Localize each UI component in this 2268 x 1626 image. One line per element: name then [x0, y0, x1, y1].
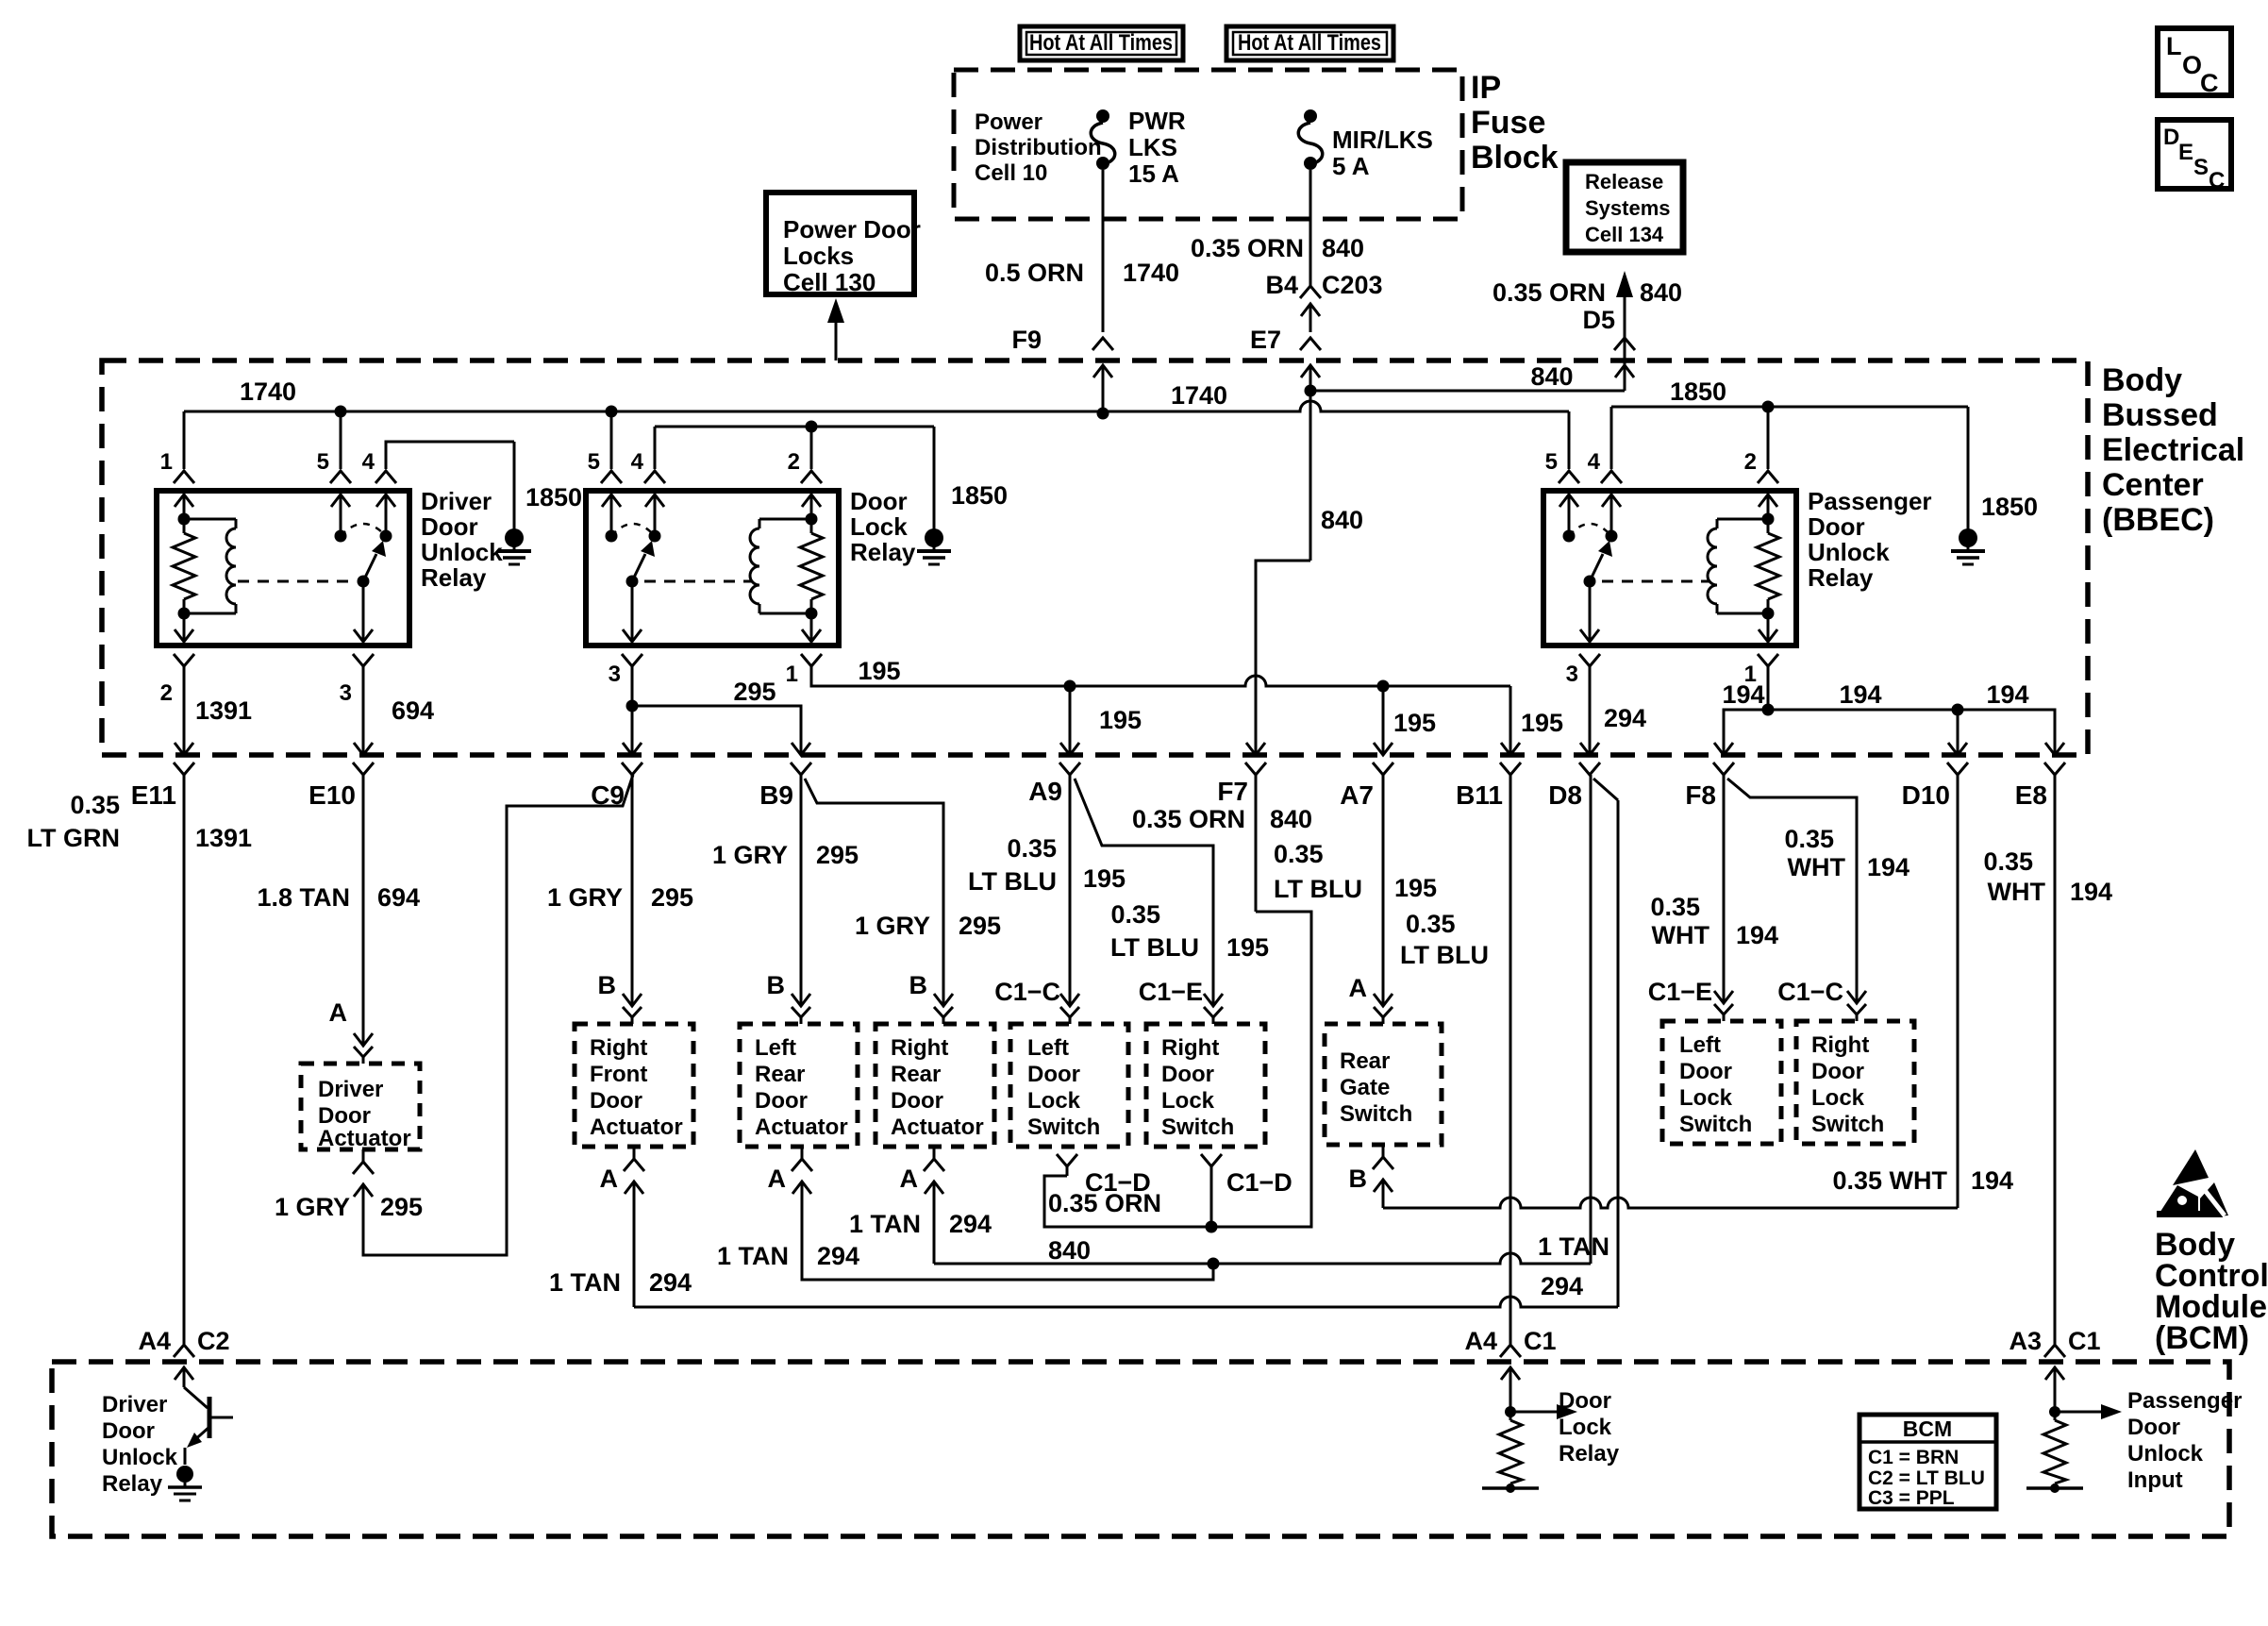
wire mid pin3 down with branch — [631, 666, 634, 755]
svg-text:A: A — [900, 1165, 919, 1193]
pass relay resistor — [1767, 519, 1770, 533]
svg-text:Distribution: Distribution — [975, 135, 1102, 160]
pass relay pin5 arrow inside — [1559, 495, 1578, 507]
connector pass RDLS C1-C top — [1847, 991, 1866, 1003]
wire 840 jog to F7 — [1256, 561, 1310, 755]
BCM passenger door unlock input symbol — [2054, 1367, 2057, 1420]
connector pass pin2 — [1758, 471, 1778, 483]
driver relay pin2 wire inside — [183, 613, 186, 642]
fuse PWR LKS 15A — [1096, 109, 1109, 123]
svg-text:Body: Body — [2102, 362, 2182, 398]
pass 1850 line — [1611, 406, 1968, 409]
svg-text:Switch: Switch — [1161, 1115, 1234, 1140]
connector B4-C203 inline — [1300, 286, 1321, 298]
svg-text:C1−E: C1−E — [1648, 978, 1712, 1006]
mid 1850 line — [655, 426, 934, 428]
svg-text:194: 194 — [1839, 680, 1881, 709]
IP Fuse Block dashed box — [954, 70, 1462, 219]
svg-text:194: 194 — [1736, 921, 1778, 949]
svg-text:Systems: Systems — [1585, 196, 1671, 220]
svg-text:Left: Left — [1679, 1032, 1721, 1058]
svg-text:1740: 1740 — [240, 377, 296, 406]
svg-text:Right: Right — [1161, 1035, 1219, 1061]
svg-text:A9: A9 — [1028, 777, 1062, 806]
svg-text:195: 195 — [1226, 933, 1269, 962]
driver relay contact arc — [341, 524, 386, 536]
svg-text:Unlock: Unlock — [421, 538, 503, 566]
svg-text:294: 294 — [949, 1210, 992, 1238]
driver relay pin1 arrow inside — [175, 495, 193, 507]
pass relay contact arc — [1569, 524, 1611, 536]
ESD symbol — [2173, 1149, 2209, 1185]
svg-text:194: 194 — [1971, 1166, 2013, 1195]
connector pass pin1 below box — [1758, 654, 1778, 666]
DESC reference box (top right) — [2158, 120, 2231, 189]
mid relay pin5 arrow inside — [602, 495, 621, 507]
pass relay coil — [1762, 513, 1775, 526]
mid relay pin2 arrow inside — [802, 495, 821, 507]
svg-text:Door: Door — [1808, 512, 1865, 541]
svg-text:(BBEC): (BBEC) — [2102, 502, 2214, 538]
svg-text:Door: Door — [755, 1088, 808, 1114]
svg-text:F8: F8 — [1685, 780, 1716, 810]
svg-text:LT BLU: LT BLU — [968, 867, 1057, 896]
svg-text:Door: Door — [318, 1103, 371, 1129]
driver relay resistor — [178, 513, 191, 526]
svg-text:C1: C1 — [1524, 1327, 1557, 1355]
svg-text:294: 294 — [817, 1242, 859, 1270]
driver relay mech link dashed — [238, 580, 349, 583]
svg-text:1.8 TAN: 1.8 TAN — [257, 883, 350, 912]
svg-text:694: 694 — [377, 883, 420, 912]
wire D8 diagonal — [1593, 779, 1618, 800]
svg-text:Right: Right — [891, 1035, 948, 1061]
svg-text:E10: E10 — [309, 780, 356, 810]
junction 195 at A9 — [1064, 680, 1076, 693]
svg-text:1740: 1740 — [1171, 381, 1227, 410]
Passenger Door Unlock Relay box — [1543, 491, 1796, 645]
pass relay contact dots — [1563, 530, 1576, 543]
wire bus to driver pin1 — [183, 411, 186, 469]
svg-text:1: 1 — [786, 662, 798, 687]
svg-text:L: L — [2166, 32, 2182, 60]
connector F8 at BBEC bottom edge — [1714, 743, 1733, 755]
wire 840 E7 to D5 riser — [1310, 390, 1625, 393]
svg-text:Cell 10: Cell 10 — [975, 160, 1047, 186]
wire rear gate B to D10 (194) — [1382, 1180, 1385, 1208]
svg-text:C203: C203 — [1322, 271, 1383, 299]
svg-text:C2: C2 — [197, 1327, 230, 1355]
svg-text:Fuse: Fuse — [1471, 105, 1545, 141]
svg-text:C1−E: C1−E — [1139, 978, 1203, 1006]
svg-text:Door: Door — [1027, 1062, 1080, 1087]
svg-text:0.35: 0.35 — [1110, 900, 1160, 929]
mid relay pin4 arrow inside — [645, 495, 664, 507]
svg-text:Gate: Gate — [1340, 1075, 1390, 1100]
svg-text:Rear: Rear — [1340, 1048, 1390, 1074]
connector pass pin3 below box — [1579, 654, 1600, 666]
BCM driver door unlock relay transistor — [183, 1367, 186, 1387]
wire driver pin3 to BBEC edge — [362, 666, 365, 755]
svg-text:Lock: Lock — [1811, 1085, 1865, 1111]
svg-text:Power Door: Power Door — [783, 215, 921, 243]
svg-text:295: 295 — [380, 1193, 423, 1221]
wire driver pin2 to BBEC edge — [183, 666, 186, 755]
connector driver pin1 — [174, 471, 194, 483]
bus 194 — [1724, 710, 2055, 755]
pass relay pin2 arrow inside — [1759, 495, 1777, 507]
mid relay pin3 wire inside — [631, 581, 634, 642]
mid relay contact arc — [611, 524, 655, 536]
svg-text:3: 3 — [340, 680, 352, 706]
svg-text:C1 = BRN: C1 = BRN — [1868, 1447, 1959, 1468]
svg-text:295: 295 — [816, 841, 859, 869]
connector A4-C1 BCM top — [1500, 1345, 1521, 1357]
svg-text:1740: 1740 — [1123, 259, 1179, 287]
svg-text:Switch: Switch — [1027, 1115, 1100, 1140]
svg-text:0.35: 0.35 — [1784, 825, 1834, 853]
svg-text:840: 840 — [1640, 278, 1682, 307]
wire mid pin2 riser — [810, 427, 813, 469]
svg-text:1391: 1391 — [195, 824, 252, 852]
connector RR actuator A bottom — [924, 1159, 944, 1171]
connector RF actuator A bottom — [624, 1159, 644, 1171]
svg-text:Relay: Relay — [1559, 1441, 1620, 1467]
svg-text:0.35: 0.35 — [1007, 834, 1057, 863]
wire pass pin2 riser — [1767, 407, 1770, 469]
wire 1740 end to pass pin5 — [1568, 411, 1571, 469]
wire RF actuator A to D8 (294) — [634, 1297, 1618, 1307]
svg-text:5: 5 — [1545, 449, 1558, 475]
svg-text:LT BLU: LT BLU — [1400, 941, 1489, 969]
svg-text:3: 3 — [609, 662, 621, 687]
wire driver actuator 295 loop — [363, 775, 633, 1255]
svg-text:1850: 1850 — [1670, 377, 1726, 406]
svg-text:840: 840 — [1530, 362, 1573, 391]
ground 1850 driver — [513, 442, 516, 529]
connector F7 at BBEC bottom edge — [1246, 743, 1265, 755]
svg-text:Rear: Rear — [755, 1062, 805, 1087]
mid relay pin1 wire inside — [810, 613, 813, 642]
svg-text:B: B — [767, 971, 786, 999]
svg-text:0.35: 0.35 — [1406, 910, 1456, 938]
ground 1850 pass — [1967, 407, 1970, 529]
mid relay contact dots — [606, 530, 618, 543]
connector rear gate A top — [1374, 994, 1392, 1006]
svg-text:4: 4 — [1588, 449, 1601, 475]
svg-text:Unlock: Unlock — [102, 1445, 178, 1470]
svg-text:B: B — [909, 971, 928, 999]
svg-text:Lock: Lock — [1679, 1085, 1733, 1111]
connector mid pin1 below box — [801, 654, 822, 666]
svg-text:Door: Door — [2127, 1415, 2180, 1440]
junction 1740 driver pin5 — [335, 406, 347, 418]
svg-text:294: 294 — [1541, 1272, 1583, 1300]
svg-text:0.35: 0.35 — [1650, 893, 1700, 921]
pass relay mech link dashed — [1602, 580, 1710, 583]
wire E11 to BCM A4-C2 — [183, 775, 186, 1344]
svg-text:1 TAN: 1 TAN — [549, 1268, 621, 1297]
svg-text:2: 2 — [788, 449, 800, 475]
wire mid pin4 riser — [654, 427, 657, 469]
connector pass pin4 — [1601, 471, 1622, 483]
svg-text:Left: Left — [755, 1035, 796, 1061]
svg-text:1: 1 — [160, 449, 173, 475]
svg-text:195: 195 — [1394, 874, 1437, 902]
bus 1740 across BBEC — [184, 401, 1569, 411]
wire F7 840 to C1-D junction — [1211, 912, 1311, 1227]
wire F8 to left passenger switch — [1723, 775, 1726, 991]
wire F9 into BBEC to 1740 bus — [1102, 365, 1105, 413]
svg-text:Driver: Driver — [421, 487, 492, 515]
svg-text:Unlock: Unlock — [1808, 538, 1890, 566]
svg-text:E: E — [2178, 140, 2193, 165]
svg-text:1 GRY: 1 GRY — [855, 912, 930, 940]
svg-text:Rear: Rear — [891, 1062, 941, 1087]
svg-text:Power: Power — [975, 109, 1042, 135]
svg-text:C1: C1 — [2068, 1327, 2101, 1355]
junction C1-D 840 — [1206, 1221, 1218, 1233]
svg-text:2: 2 — [1744, 449, 1757, 475]
svg-text:840: 840 — [1048, 1236, 1091, 1265]
Left Door Lock Switch box — [1010, 1024, 1128, 1147]
svg-text:C3 = PPL: C3 = PPL — [1868, 1487, 1955, 1509]
svg-text:694: 694 — [392, 696, 434, 725]
wire pass pin3 to D8 — [1589, 666, 1592, 755]
svg-text:A: A — [600, 1165, 619, 1193]
wire pass pin1 to 194 bus — [1767, 666, 1770, 710]
connector LDLS C1-D bottom — [1057, 1154, 1077, 1166]
connector E7 at BBEC top — [1300, 338, 1321, 350]
svg-text:Lock: Lock — [1027, 1088, 1081, 1114]
wire bus to driver pin5 — [340, 411, 342, 469]
svg-text:WHT: WHT — [1652, 921, 1710, 949]
LOC reference box (top right) — [2158, 28, 2231, 95]
svg-text:Electrical: Electrical — [2102, 432, 2244, 468]
connector B9 at BBEC bottom edge — [792, 743, 810, 755]
svg-text:Lock: Lock — [1161, 1088, 1215, 1114]
wire 840 to left C1-D hook — [1044, 1176, 1211, 1227]
wire E7 junction into BBEC — [1309, 365, 1312, 391]
svg-text:194: 194 — [1986, 680, 2028, 709]
BCM dashed box — [52, 1362, 2229, 1536]
wire E8 to BCM A3-C1 — [2054, 775, 2057, 1344]
svg-text:5: 5 — [317, 449, 329, 475]
wire A7 to rear gate switch — [1382, 775, 1385, 991]
svg-text:Relay: Relay — [102, 1471, 163, 1497]
svg-text:Door: Door — [102, 1418, 155, 1444]
Power Door Locks Cell 130 box — [766, 193, 914, 294]
driver relay coil — [184, 518, 236, 521]
connector LR actuator A bottom — [792, 1159, 812, 1171]
svg-text:840: 840 — [1322, 234, 1364, 262]
connector E11 at BBEC bottom edge — [175, 743, 193, 755]
svg-text:A: A — [1349, 974, 1368, 1002]
svg-text:Driver: Driver — [102, 1392, 167, 1417]
svg-text:S: S — [2193, 155, 2209, 180]
svg-text:A7: A7 — [1340, 780, 1374, 810]
connector A3-C1 BCM top — [2044, 1345, 2065, 1357]
svg-text:B: B — [598, 971, 617, 999]
pass Right Door Lock Switch box — [1796, 1021, 1914, 1144]
svg-text:C1−D: C1−D — [1226, 1168, 1292, 1197]
mid relay resistor — [810, 519, 813, 533]
wire C9 to right front actuator — [631, 775, 634, 991]
connector rear gate B bottom — [1373, 1157, 1393, 1169]
svg-text:5 A: 5 A — [1332, 152, 1370, 180]
BCM door lock relay symbol — [1509, 1367, 1512, 1420]
wire E10 to driver door actuator — [362, 775, 365, 991]
Right Door Lock Switch box — [1146, 1024, 1265, 1147]
Right Rear Door Actuator box — [876, 1024, 994, 1147]
connector pass pin5 — [1559, 471, 1579, 483]
connector mid pin4 — [644, 471, 665, 483]
svg-text:Actuator: Actuator — [891, 1115, 984, 1140]
svg-text:BCM: BCM — [1903, 1416, 1952, 1441]
svg-text:Right: Right — [590, 1035, 647, 1061]
wire bus to mid pin5 — [610, 411, 613, 469]
connector driver pin4 — [375, 471, 396, 483]
svg-text:A: A — [329, 998, 348, 1027]
Hot At All Times label box (right) — [1226, 26, 1393, 60]
svg-text:294: 294 — [649, 1268, 692, 1297]
svg-text:Right: Right — [1811, 1032, 1869, 1058]
mid relay coil — [806, 513, 818, 526]
svg-text:4: 4 — [362, 449, 375, 475]
svg-text:1 GRY: 1 GRY — [547, 883, 623, 912]
pass relay pin1 wire inside — [1767, 613, 1770, 642]
svg-text:Switch: Switch — [1811, 1112, 1884, 1137]
connector mid pin2 — [801, 471, 822, 483]
connector A9 at BBEC bottom edge — [1060, 743, 1079, 755]
connector mid pin5 — [601, 471, 622, 483]
svg-text:195: 195 — [1521, 709, 1563, 737]
wire B9 branch to right rear — [805, 779, 943, 991]
wire A9 to left door lock switch — [1069, 775, 1072, 991]
connector RDLS C1-E top — [1204, 994, 1223, 1006]
wire 195 drop to A7 — [1382, 686, 1385, 755]
Hot At All Times label box (left) — [1020, 26, 1183, 60]
svg-text:Front: Front — [590, 1062, 647, 1087]
wire C203 to E7 — [1309, 304, 1312, 332]
svg-text:B: B — [1349, 1165, 1368, 1193]
svg-text:LT BLU: LT BLU — [1110, 933, 1199, 962]
connector LDLS C1-C top — [1060, 994, 1079, 1006]
svg-text:C: C — [2209, 168, 2225, 193]
svg-text:194: 194 — [2070, 878, 2112, 906]
driver relay switch arm — [363, 554, 376, 581]
connector driver pin2 below box — [174, 654, 194, 666]
connector mid pin3 below box — [622, 654, 642, 666]
connector driver pin5 — [330, 471, 351, 483]
svg-text:Door: Door — [850, 487, 908, 515]
svg-text:Door: Door — [1161, 1062, 1214, 1087]
junction 1740/F9 — [1097, 408, 1109, 420]
svg-text:195: 195 — [1393, 709, 1436, 737]
svg-text:Passenger: Passenger — [2127, 1388, 2242, 1414]
wire B11 to BCM A4-C1 — [1509, 775, 1512, 1344]
svg-text:294: 294 — [1604, 704, 1646, 732]
connector D10 at BBEC bottom edge — [1948, 743, 1967, 755]
svg-text:0.35 ORN: 0.35 ORN — [1132, 805, 1245, 833]
svg-text:295: 295 — [651, 883, 693, 912]
svg-text:B11: B11 — [1456, 780, 1503, 810]
svg-text:Block: Block — [1471, 140, 1559, 176]
svg-text:D: D — [2163, 125, 2179, 150]
svg-text:F7: F7 — [1217, 777, 1248, 806]
svg-text:3: 3 — [1566, 662, 1578, 687]
svg-text:E7: E7 — [1250, 326, 1281, 354]
svg-text:Door: Door — [421, 512, 478, 541]
svg-text:Door: Door — [891, 1088, 943, 1114]
svg-text:1850: 1850 — [951, 481, 1008, 510]
svg-text:1 TAN: 1 TAN — [1538, 1232, 1609, 1261]
pass relay switch arm — [1590, 554, 1603, 581]
svg-text:E8: E8 — [2015, 780, 2047, 810]
svg-text:WHT: WHT — [1788, 853, 1846, 881]
ground 1850 mid — [933, 427, 936, 529]
svg-text:Release: Release — [1585, 170, 1663, 193]
svg-text:Center: Center — [2102, 467, 2204, 503]
fuse MIR/LKS 5A — [1304, 109, 1317, 123]
wire LR actuator A to junction (294) — [802, 1182, 1213, 1280]
driver relay pin5 arrow inside — [331, 495, 350, 507]
connector C9 at BBEC bottom edge — [623, 743, 642, 755]
pass relay pin3 wire inside — [1589, 581, 1592, 642]
pass relay pin4 arrow inside — [1602, 495, 1621, 507]
driver relay pin3 wire inside — [362, 581, 365, 642]
wire 840 E7 descent — [1309, 391, 1312, 561]
wire F8 branch to right passenger switch — [1727, 779, 1857, 991]
connector RDLS C1-D bottom — [1201, 1154, 1222, 1166]
wire fuse1 to F9 — [1102, 170, 1105, 332]
svg-text:Bussed: Bussed — [2102, 397, 2218, 433]
svg-text:LT GRN: LT GRN — [27, 824, 120, 852]
svg-text:Hot At All Times: Hot At All Times — [1029, 30, 1173, 56]
svg-text:Cell 134: Cell 134 — [1585, 223, 1664, 246]
svg-text:B9: B9 — [759, 780, 793, 810]
svg-text:194: 194 — [1867, 853, 1909, 881]
svg-text:A4: A4 — [138, 1327, 171, 1355]
svg-text:195: 195 — [1099, 706, 1142, 734]
svg-text:195: 195 — [858, 657, 900, 685]
svg-text:5: 5 — [588, 449, 600, 475]
connector RR actuator B top — [934, 994, 953, 1006]
junction 1740 mid pin5 — [606, 406, 618, 418]
svg-text:1850: 1850 — [525, 483, 582, 511]
connector A7 at BBEC bottom edge — [1374, 743, 1392, 755]
svg-text:1 TAN: 1 TAN — [717, 1242, 789, 1270]
svg-text:LT BLU: LT BLU — [1274, 875, 1362, 903]
svg-text:Driver: Driver — [318, 1077, 383, 1102]
connector pass LDLS C1-E top — [1714, 991, 1733, 1003]
connector RF actuator B top — [623, 994, 642, 1006]
svg-text:(BCM): (BCM) — [2155, 1320, 2249, 1356]
Door Lock Relay box — [586, 491, 839, 645]
svg-text:0.35: 0.35 — [1983, 847, 2033, 876]
svg-text:0.35: 0.35 — [70, 791, 120, 819]
Right Front Door Actuator box — [575, 1024, 693, 1147]
svg-text:Door: Door — [590, 1088, 642, 1114]
wire B9 to left rear actuator — [800, 775, 803, 991]
svg-text:Switch: Switch — [1679, 1112, 1752, 1137]
bus 195 A9 to B11 — [1070, 676, 1510, 686]
svg-text:0.35: 0.35 — [1274, 840, 1324, 868]
connector E10 at BBEC bottom edge — [354, 743, 373, 755]
svg-text:295: 295 — [733, 678, 775, 706]
arrow from BBEC to Power Door Locks — [835, 319, 838, 360]
svg-text:295: 295 — [959, 912, 1001, 940]
